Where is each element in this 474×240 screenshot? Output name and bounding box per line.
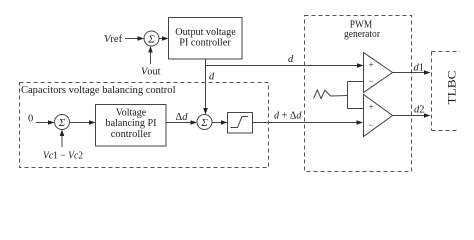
svg-text:d: d	[209, 72, 215, 83]
dashed box capacitors voltage balancing control	[20, 83, 269, 168]
svg-text:controller: controller	[111, 128, 152, 140]
svg-text:Σ: Σ	[58, 117, 66, 129]
carrier waveform symbol	[314, 90, 331, 99]
block U1 Output voltage PI controller	[169, 18, 243, 60]
svg-text:d + Δd: d + Δd	[274, 111, 302, 122]
svg-text:Vc1 − Vc2: Vc1 − Vc2	[43, 151, 83, 162]
svg-text:+: +	[369, 60, 374, 70]
svg-text:+: +	[369, 102, 374, 112]
svg-text:generator: generator	[344, 28, 380, 40]
wire S1 to output-voltage PI controller	[159, 36, 169, 41]
block saturation limiter	[228, 113, 253, 134]
wire d2 output to TLBC	[393, 113, 431, 118]
dashed box TLBC	[432, 52, 461, 131]
wire carrier to comparator inputs	[331, 82, 364, 109]
svg-text:d: d	[288, 54, 294, 65]
wire Vref to summer S1	[125, 36, 144, 41]
wire Vout feedback into S1	[148, 46, 153, 64]
svg-text:0: 0	[28, 114, 33, 125]
summing junction S1	[144, 31, 159, 46]
svg-text:PI controller: PI controller	[179, 37, 231, 49]
svg-text:−: −	[369, 76, 374, 86]
svg-text:d1: d1	[414, 63, 425, 74]
svg-text:Capacitors voltage balancing c: Capacitors voltage balancing control	[21, 84, 176, 96]
wire 0 to summer S2	[36, 120, 55, 125]
svg-text:Δd: Δd	[176, 112, 189, 123]
comparator B	[364, 95, 393, 137]
block U2 Voltage balancing PI controller	[96, 105, 167, 147]
wire S2 to voltage balancing PI controller	[70, 120, 96, 125]
wire d+delta-d to comparator B minus input	[253, 120, 364, 125]
comparator A	[364, 53, 393, 93]
svg-text:Vref: Vref	[104, 34, 123, 45]
svg-text:Σ: Σ	[147, 34, 155, 46]
svg-text:d2: d2	[414, 105, 425, 116]
wire balancing PI controller to summer S3	[166, 120, 197, 125]
svg-text:Vout: Vout	[141, 67, 161, 78]
dashed box PWM generator	[305, 16, 412, 172]
label PWM generator	[344, 19, 380, 41]
summing junction S2	[55, 115, 70, 130]
svg-text:−: −	[369, 120, 374, 130]
wire S3 to saturation block	[212, 120, 228, 125]
svg-text:Σ: Σ	[200, 117, 208, 129]
wire d1 output to TLBC	[393, 70, 431, 75]
wire Vc1-Vc2 into S2	[60, 130, 65, 148]
summing junction S3	[197, 115, 212, 130]
wire d branch to comparator A plus input	[206, 63, 364, 68]
svg-text:TLBC: TLBC	[447, 70, 459, 104]
wire d vertical from PI controller down to summer S3	[203, 59, 208, 115]
